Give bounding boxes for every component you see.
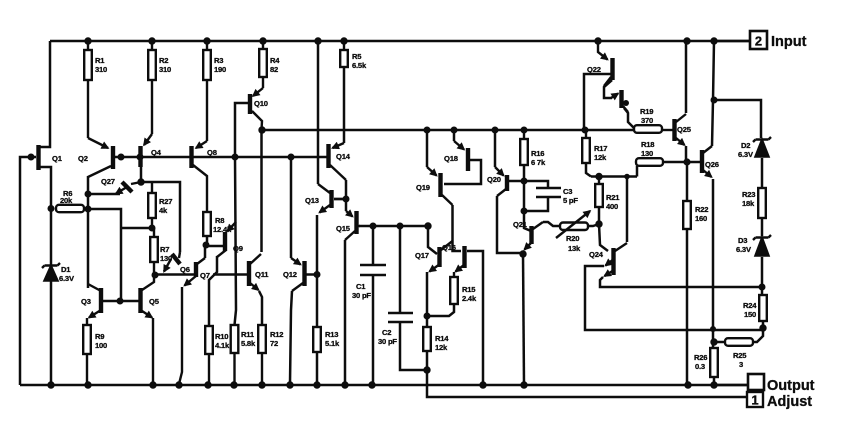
wire R23 to D3 (761, 218, 764, 236)
resistor R12 (258, 325, 266, 385)
svg-text:R2: R2 (159, 56, 168, 65)
transistor Q8 bar (189, 146, 193, 168)
svg-text:Q13: Q13 (305, 196, 319, 205)
wire input terminal stub (714, 40, 750, 43)
svg-text:Q1: Q1 (52, 154, 63, 163)
svg-text:R22: R22 (695, 205, 708, 214)
svg-text:Q14: Q14 (336, 152, 351, 161)
wire bottom output rail (20, 384, 748, 387)
wire Q22 base to bias bus (584, 74, 611, 131)
wire Q17 emitter down to R14 node (426, 272, 429, 316)
svg-text:13k: 13k (568, 244, 581, 253)
wire tap to D2 chain (714, 100, 761, 138)
svg-text:Q24: Q24 (589, 250, 604, 259)
transistor Q2 bar (111, 146, 115, 169)
svg-text:Adjust: Adjust (767, 394, 812, 410)
wire output terminal stub (714, 384, 748, 387)
wire Q19 collector / Q17 collector column (453, 205, 462, 251)
transistor Q22 bar (610, 58, 614, 80)
wire base bus y=157 (115, 156, 327, 159)
svg-text:5.8k: 5.8k (241, 339, 256, 348)
wire Q17 base from y=226 node (428, 226, 437, 254)
svg-text:Q12: Q12 (283, 270, 297, 279)
svg-text:2: 2 (755, 34, 762, 49)
transistor Q14 emitter arrow and collector (333, 143, 345, 148)
svg-text:310: 310 (95, 65, 107, 74)
wire Q3/Q5 base bus (102, 300, 139, 303)
transistor Q13 bar (329, 190, 333, 208)
transistor Q20 bar (505, 175, 509, 191)
wire R25 left node on Q26 emitter line (713, 341, 725, 344)
transistor Q23 emitter arrow and collector (611, 94, 618, 99)
transistor Q26 bar (700, 150, 704, 173)
wire Q20 emitter from bias bus (494, 130, 497, 167)
wire R15 bottom bend to R14 node (427, 304, 454, 316)
wire Q25 collector to top rail (685, 41, 688, 113)
transistor Q10 emitter arrow and collector (253, 88, 263, 96)
svg-text:C2: C2 (382, 328, 391, 337)
wire adjust rail (427, 370, 747, 397)
svg-text:Q15: Q15 (336, 224, 351, 233)
svg-text:3: 3 (739, 360, 743, 369)
resistor R21 (595, 177, 603, 208)
svg-text:R8: R8 (215, 216, 224, 225)
svg-text:R24: R24 (743, 301, 757, 310)
wire Q24 emitter2 to y=287 line to D3/R24 node (600, 277, 762, 287)
resistor R1 (84, 41, 92, 138)
transistor Q16 emitter arrow (456, 265, 465, 272)
transistor Q18 emitter arrow (454, 141, 464, 150)
resistor R7 (150, 228, 158, 275)
svg-text:R14: R14 (435, 334, 449, 343)
transistor Q3 collector and emitter arrow (88, 284, 101, 291)
transistor Q24 bar (611, 248, 615, 275)
resistor R18 (636, 158, 663, 166)
wire Q20 collector down to Q21 emitter node (497, 196, 523, 253)
transistor Q19 bar (438, 173, 442, 197)
transistor Q1 bar (36, 145, 40, 170)
transistor Q27 emitter arrow and collector (116, 187, 127, 194)
svg-text:6.3V: 6.3V (736, 245, 752, 254)
wire Q1 source down left chain through D1 to bottom rail (40, 167, 51, 385)
svg-text:Q20: Q20 (487, 175, 501, 184)
transistor Q4 bar (138, 146, 142, 167)
svg-text:2.4k: 2.4k (462, 294, 477, 303)
svg-text:Q2: Q2 (78, 154, 88, 163)
transistor Q27 bar (122, 182, 132, 192)
svg-text:R21: R21 (606, 193, 620, 202)
resistor R16 (520, 130, 528, 165)
resistor R13 (313, 327, 321, 352)
diode D2 zener (753, 137, 771, 157)
wire Q9 collector down to R10 (209, 256, 217, 326)
wire Q7 collector up to R8 bottom node (204, 245, 207, 258)
svg-text:6.5k: 6.5k (352, 61, 367, 70)
svg-text:12k: 12k (435, 343, 448, 352)
svg-text:20k: 20k (60, 196, 73, 205)
svg-text:6.3V: 6.3V (59, 274, 75, 283)
wire Q22 collector to Q23 emitter path (604, 80, 612, 98)
svg-text:R16: R16 (531, 149, 544, 158)
wire R14 top node down / R14 bottom to adjust corner (426, 316, 429, 370)
svg-text:150: 150 (744, 310, 756, 319)
transistor Q13 collector base and emitter arrow (318, 184, 330, 193)
svg-text:18k: 18k (742, 199, 755, 208)
svg-text:D2: D2 (741, 141, 750, 150)
transistor Q12 bar (302, 261, 306, 286)
svg-text:0.3: 0.3 (695, 362, 705, 371)
resistor R15 (450, 277, 458, 304)
svg-text:30 pF: 30 pF (378, 337, 397, 346)
terminal 1 Adjust (747, 392, 812, 410)
svg-text:Q18: Q18 (444, 154, 458, 163)
wire R22 leads node to output rail (686, 162, 689, 385)
wire Q14 collector to Q13 base node (334, 180, 346, 199)
transistor Q6 bar (172, 254, 180, 264)
wire Q13 emitter down through R13 node (316, 215, 319, 327)
transistor Q14 bar (326, 144, 330, 168)
svg-text:Q3: Q3 (81, 297, 91, 306)
capacitor C2 (388, 313, 413, 322)
wire Q13 base node down to Q15 emitter (345, 199, 348, 211)
resistor R2 (148, 41, 156, 134)
wire Q24 emitter1 to y=330 line to R24 bottom (585, 266, 763, 330)
svg-text:Q7: Q7 (200, 271, 210, 280)
svg-text:82: 82 (270, 65, 278, 74)
wire Q6/Q7/Q11 base bus y=274.5 (155, 273, 248, 276)
resistor R23 (758, 188, 766, 218)
svg-text:12.4k: 12.4k (213, 225, 232, 234)
svg-text:4.1k: 4.1k (215, 341, 230, 350)
capacitor C1 (360, 265, 386, 275)
wire R24 bottom to node (762, 321, 765, 328)
svg-text:R23: R23 (742, 190, 755, 199)
svg-text:R13: R13 (325, 330, 338, 339)
resistor R4 (259, 41, 267, 88)
svg-text:D1: D1 (61, 265, 71, 274)
resistor R14 (423, 327, 431, 351)
svg-text:Q16: Q16 (442, 243, 456, 252)
svg-text:400: 400 (606, 202, 618, 211)
svg-text:5 pF: 5 pF (563, 196, 578, 205)
wire Q20 base / R16 node (509, 180, 524, 183)
wire R27 bottom junction left to x=121 vertical (121, 227, 152, 230)
wire Q24 base from R20/R21 node (599, 224, 608, 251)
svg-text:Q26: Q26 (705, 160, 719, 169)
transistor Q25 collector and emitter arrow (676, 114, 686, 122)
wire R20 right lead (588, 224, 599, 226)
transistor Q21 collector and emitter arrow (533, 222, 543, 229)
svg-text:D3: D3 (738, 236, 747, 245)
wire Q12 base to Q13 emitter line (305, 273, 317, 276)
wire Q15 collector down to rail (344, 240, 347, 385)
resistor R19 (634, 125, 673, 133)
resistor R5 (340, 41, 348, 67)
transistor Q9 bar (223, 232, 227, 251)
wire left vertical from top rail to Q1 drain (40, 41, 50, 147)
wire C1 leads (372, 226, 375, 385)
transistor Q12 emitter arrow and collector (291, 258, 301, 265)
transistor Q21 bar (529, 226, 533, 244)
svg-text:Q11: Q11 (255, 270, 269, 279)
diode D1 zener (42, 263, 60, 281)
transistor Q5 bar (138, 288, 142, 313)
svg-text:130: 130 (641, 149, 653, 158)
wire R18 right lead to node (663, 161, 687, 164)
svg-text:30 pF: 30 pF (352, 291, 371, 300)
terminal Output (748, 374, 815, 394)
transistor Q24 collector and dual emitter arrows (615, 243, 627, 251)
wire Q10 base down to bus (235, 103, 250, 157)
svg-text:Q21: Q21 (513, 220, 528, 229)
transistor Q6 emitter arrow and collector (164, 259, 171, 272)
transistor Q17 bar (437, 247, 441, 267)
wire D2 to R23 (761, 158, 764, 188)
svg-text:Q25: Q25 (677, 125, 692, 134)
transistor Q10 bar (248, 94, 252, 114)
transistor Q15 bar (354, 211, 358, 234)
wire Q27 emitter line to Q2 collector (88, 193, 120, 196)
wire R6 right to x=121 vertical down to Q3/Q5 base bus (88, 209, 121, 301)
resistor R25 (725, 338, 753, 346)
wire R13 bottom to rail (316, 352, 319, 385)
svg-text:Output: Output (767, 378, 815, 394)
svg-text:Q10: Q10 (254, 99, 268, 108)
diode D3 zener (753, 235, 771, 256)
wire R17 bottom to node y=177 (586, 163, 591, 177)
wire x=236 vertical bus to R11 (235, 157, 237, 325)
svg-text:R10: R10 (215, 332, 228, 341)
terminal 2 Input (750, 31, 807, 50)
resistor R6 (56, 205, 84, 212)
transistor Q5 collector and emitter arrow (141, 275, 155, 291)
svg-text:100: 100 (95, 341, 107, 350)
wire C2 leads (400, 226, 427, 370)
svg-text:Q17: Q17 (415, 251, 429, 260)
resistor R9 (83, 318, 91, 385)
svg-text:R12: R12 (270, 330, 283, 339)
wire R4/Q10 collector node down to Q11 collector (260, 130, 263, 252)
resistor R26 (710, 348, 718, 377)
resistor R24 (759, 295, 767, 321)
svg-text:Q8: Q8 (207, 148, 217, 157)
wire C3 bottom bend (524, 197, 548, 211)
wire node y=177 horizontal R21 top to R18 left (591, 166, 637, 177)
wire R16 bottom through C3 taps to Q21 base (524, 165, 531, 231)
svg-text:4k: 4k (159, 206, 168, 215)
transistor Q8 emitter arrow and collector (196, 141, 207, 148)
svg-text:R27: R27 (159, 197, 172, 206)
resistor R22 (683, 201, 691, 229)
svg-text:R3: R3 (214, 56, 223, 65)
svg-text:C3: C3 (563, 187, 572, 196)
transistor Q16 bar (462, 246, 466, 268)
svg-text:R9: R9 (95, 332, 104, 341)
transistor Q3 bar (99, 288, 103, 313)
svg-text:12k: 12k (594, 153, 607, 162)
svg-text:Q6: Q6 (180, 265, 190, 274)
wire Q21/Q20 node down to output rail (523, 254, 524, 385)
wire Q26 base (687, 161, 700, 164)
wire far-left vertical Q1 gate to bottom rail (20, 157, 36, 385)
svg-text:R4: R4 (270, 56, 280, 65)
resistor R27 (148, 182, 156, 228)
wire y=226 bus Q15 base to Q17/Q19 column (359, 225, 428, 228)
transistor Q11 collector and emitter arrow (250, 254, 261, 264)
svg-text:Q22: Q22 (587, 65, 601, 74)
svg-text:6.3V: 6.3V (738, 150, 754, 159)
svg-text:R5: R5 (352, 52, 362, 61)
transistor Q11 bar (247, 261, 251, 286)
wire Q26 emitter down through R25/R26 node (712, 179, 715, 348)
resistor R20 variable (556, 211, 590, 238)
wire Q18 emitter from bias bus (453, 130, 456, 141)
wire Q26 collector to top rail (712, 41, 714, 146)
transistor Q17 collector and emitter arrow (441, 241, 453, 250)
wire Q24 collector up to y=177 node (626, 177, 629, 243)
svg-text:130: 130 (160, 254, 172, 263)
svg-text:R19: R19 (640, 107, 653, 116)
wire Q25 emitter to node (685, 146, 688, 162)
svg-text:370: 370 (641, 116, 653, 125)
svg-text:R1: R1 (95, 56, 105, 65)
resistor R3 (203, 41, 211, 141)
wire R8 bottom to Q9 base node (207, 236, 224, 246)
svg-text:Q5: Q5 (149, 297, 160, 306)
wire top supply rail (50, 40, 752, 43)
svg-text:Q4: Q4 (151, 148, 162, 157)
wire Q4 collector node to R27 top and Q6 collector (141, 166, 180, 252)
wire Q19 emitter from bias bus (426, 130, 429, 167)
wire R21 bottom to R20 right node (598, 207, 601, 224)
transistor Q18 bar (466, 148, 470, 171)
svg-text:R17: R17 (594, 144, 607, 153)
svg-text:5.1k: 5.1k (325, 339, 340, 348)
wire R5 lead down to Q14 emitter (343, 67, 346, 143)
svg-text:310: 310 (159, 65, 171, 74)
wire Q11 emitter to R12 (259, 291, 262, 325)
wire Q2 collector vertical down to Q3 collector (87, 176, 90, 288)
svg-text:R11: R11 (241, 330, 255, 339)
resistor R10 (205, 326, 213, 385)
capacitor C3 (536, 188, 561, 197)
transistor Q2 emitter arrow and collector (88, 138, 108, 148)
wire R25 right lead bend (753, 328, 763, 342)
transistor Q20 emitter arrow and collector (495, 167, 504, 176)
svg-text:C1: C1 (356, 282, 366, 291)
wire Q21 collector to R20 (543, 222, 560, 226)
wire D3 to node y=287 to R24 (761, 257, 764, 295)
svg-text:6 7k: 6 7k (531, 158, 546, 167)
transistor Q25 bar (672, 119, 676, 141)
wire Q23 collector down to R19 left (624, 108, 634, 128)
svg-text:R18: R18 (641, 140, 654, 149)
transistor Q7 bar (194, 262, 198, 277)
transistor Q22 emitter arrow and collector (598, 41, 608, 60)
svg-text:R20: R20 (566, 234, 579, 243)
transistor Q7 collector and emitter arrow (197, 258, 205, 264)
transistor Q15 emitter arrow base and collector (346, 211, 353, 217)
transistor Q9 emitter arrow and collector (228, 222, 237, 231)
svg-text:R25: R25 (733, 351, 747, 360)
wire Q16 collector to output column (467, 251, 483, 385)
svg-text:160: 160 (695, 214, 707, 223)
svg-text:Input: Input (771, 34, 807, 50)
wire C3 top bend (524, 181, 548, 188)
svg-text:190: 190 (214, 65, 226, 74)
wire Q12 collector down to rail (290, 291, 292, 383)
svg-text:1: 1 (751, 393, 758, 408)
wire x=318 Vin vertical to Q13 collector (317, 41, 320, 184)
transistor Q19 emitter arrow and collector (427, 167, 437, 176)
resistor R17 (582, 130, 590, 163)
svg-text:Q27: Q27 (101, 177, 115, 186)
wire bias bus y=130 (262, 129, 635, 132)
svg-text:Q19: Q19 (416, 183, 430, 192)
transistor Q4 emitter arrow (144, 134, 152, 145)
wire R26 bottom to output rail (713, 377, 716, 385)
wire Q12 emitter from bus (290, 157, 293, 258)
svg-text:R26: R26 (694, 353, 707, 362)
svg-text:R7: R7 (160, 245, 169, 254)
resistor R11 (231, 325, 239, 385)
wire Q18 collector loop to Q19 base (444, 160, 481, 184)
svg-text:R15: R15 (462, 285, 476, 294)
svg-text:72: 72 (270, 339, 278, 348)
transistor Q26 collector and emitter arrow (703, 146, 712, 153)
resistor R8 (203, 212, 211, 236)
transistor Q23 bar (619, 90, 623, 108)
svg-text:Q9: Q9 (233, 244, 243, 253)
